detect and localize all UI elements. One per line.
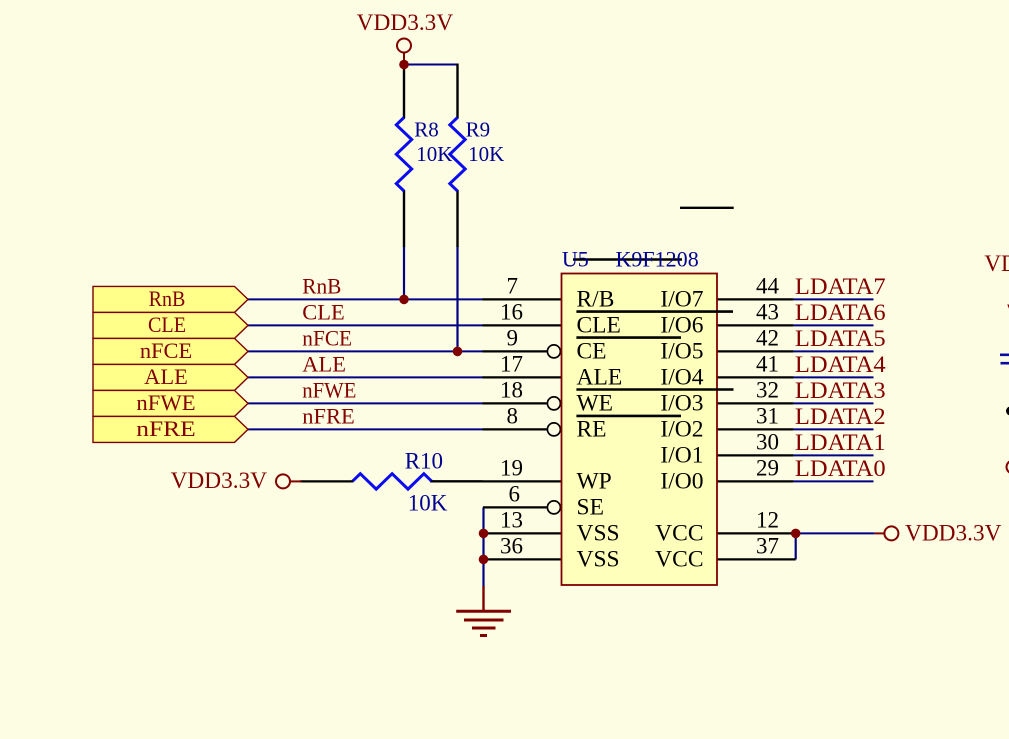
svg-text:10K: 10K: [408, 490, 448, 515]
svg-text:36: 36: [500, 534, 523, 559]
svg-text:RnB: RnB: [302, 273, 341, 298]
svg-text:16: 16: [500, 300, 523, 325]
svg-text:I/O7: I/O7: [660, 286, 703, 312]
svg-text:43: 43: [756, 300, 779, 325]
svg-text:30: 30: [756, 430, 779, 455]
svg-text:K9F1208: K9F1208: [616, 247, 699, 272]
svg-text:8: 8: [507, 404, 519, 429]
svg-text:I/O4: I/O4: [660, 364, 703, 390]
svg-text:VSS: VSS: [577, 546, 620, 572]
svg-text:nFRE: nFRE: [302, 403, 355, 428]
svg-text:37: 37: [756, 534, 779, 559]
svg-text:I/O3: I/O3: [660, 390, 703, 416]
svg-text:13: 13: [500, 508, 523, 533]
svg-text:R10: R10: [405, 448, 443, 473]
svg-text:SE: SE: [577, 494, 604, 520]
svg-text:WP: WP: [577, 468, 612, 494]
svg-text:VDD3.3V: VDD3.3V: [905, 520, 1002, 545]
svg-text:42: 42: [756, 326, 779, 351]
svg-text:41: 41: [756, 352, 779, 377]
svg-text:nFWE: nFWE: [302, 377, 356, 402]
svg-text:ALE: ALE: [144, 364, 188, 389]
svg-text:RnB: RnB: [149, 286, 186, 311]
svg-text:I/O6: I/O6: [660, 312, 703, 338]
svg-text:CLE: CLE: [302, 299, 345, 324]
svg-text:7: 7: [507, 274, 519, 299]
svg-text:VDD3.3V: VDD3.3V: [357, 10, 454, 35]
svg-text:VCC: VCC: [655, 520, 703, 546]
svg-text:CLE: CLE: [148, 312, 186, 337]
svg-text:nFWE: nFWE: [136, 390, 195, 415]
svg-text:17: 17: [500, 352, 523, 377]
svg-text:29: 29: [756, 456, 779, 481]
svg-text:CE: CE: [577, 338, 607, 364]
svg-text:CLE: CLE: [577, 312, 621, 338]
svg-text:9: 9: [507, 326, 519, 351]
svg-text:LDATA4: LDATA4: [795, 352, 886, 377]
svg-text:WE: WE: [577, 390, 614, 416]
svg-text:VSS: VSS: [577, 520, 620, 546]
svg-text:VCC: VCC: [655, 546, 703, 572]
svg-text:VD: VD: [984, 251, 1009, 276]
svg-text:nFCE: nFCE: [302, 325, 352, 350]
svg-text:18: 18: [500, 378, 523, 403]
svg-text:12: 12: [756, 508, 779, 533]
svg-text:44: 44: [756, 274, 780, 299]
svg-text:ALE: ALE: [302, 351, 346, 376]
svg-text:R9: R9: [466, 118, 491, 142]
svg-text:nFRE: nFRE: [136, 416, 196, 441]
svg-text:10K: 10K: [416, 142, 452, 166]
svg-text:LDATA6: LDATA6: [795, 300, 886, 325]
svg-text:19: 19: [500, 456, 523, 481]
svg-text:I/O0: I/O0: [660, 468, 703, 494]
svg-text:LDATA3: LDATA3: [795, 378, 886, 403]
svg-text:LDATA2: LDATA2: [795, 404, 886, 429]
svg-text:R8: R8: [414, 118, 439, 142]
svg-text:nFCE: nFCE: [140, 338, 192, 363]
svg-text:RE: RE: [577, 416, 607, 442]
svg-text:I/O5: I/O5: [660, 338, 703, 364]
svg-text:31: 31: [756, 404, 779, 429]
svg-text:R/B: R/B: [577, 286, 615, 312]
svg-text:ALE: ALE: [577, 364, 623, 390]
svg-text:10K: 10K: [468, 142, 504, 166]
svg-text:LDATA7: LDATA7: [795, 274, 886, 299]
svg-text:32: 32: [756, 378, 779, 403]
svg-text:I/O1: I/O1: [660, 442, 703, 468]
svg-text:VDD3.3V: VDD3.3V: [171, 468, 268, 493]
svg-text:6: 6: [509, 482, 521, 507]
svg-text:I/O2: I/O2: [660, 416, 703, 442]
svg-text:LDATA0: LDATA0: [795, 456, 886, 481]
svg-text:LDATA1: LDATA1: [795, 430, 886, 455]
svg-text:U5: U5: [562, 247, 589, 272]
svg-text:LDATA5: LDATA5: [795, 326, 886, 351]
